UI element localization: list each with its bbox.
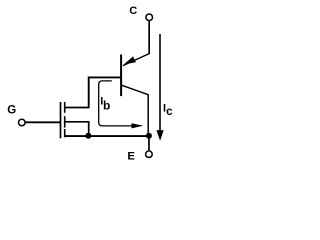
current arrowhead Ic xyxy=(156,130,163,141)
wire C terminal to emitter diagonal xyxy=(148,21,150,54)
svg-text:c: c xyxy=(166,106,173,118)
terminal E circle xyxy=(146,151,153,158)
MOSFET M1 body stub xyxy=(65,122,89,136)
MOSFET M1 channel segment bottom xyxy=(64,129,66,137)
MOSFET M1 channel segment top xyxy=(64,102,66,113)
wire gate xyxy=(26,121,60,123)
terminal G circle xyxy=(19,119,26,126)
svg-text:C: C xyxy=(129,5,137,17)
svg-text:b: b xyxy=(103,98,110,112)
transistor Q1 emitter arrowhead (PNP, points into base) xyxy=(124,56,136,64)
wire base (MOSFET drain to Q1 base) xyxy=(89,77,121,107)
svg-text:E: E xyxy=(127,150,135,162)
transistor Q1 collector diagonal xyxy=(122,85,149,95)
wire emitter bottom rail xyxy=(64,135,149,137)
MOSFET M1 gate bar xyxy=(60,102,62,138)
current arrow Ic line xyxy=(159,34,161,132)
current arrowhead Ib xyxy=(132,123,144,128)
MOSFET M1 channel segment middle xyxy=(64,116,66,127)
wire E terminal stub xyxy=(148,136,150,150)
transistor Q1 emitter diagonal xyxy=(123,54,149,66)
terminal C circle xyxy=(146,14,153,21)
transistor Q1 PNP base bar xyxy=(120,55,122,97)
wire collector vertical down to emitter node xyxy=(147,94,149,136)
MOSFET M1 drain stub xyxy=(65,107,90,109)
svg-text:G: G xyxy=(7,104,16,116)
node source junction dot xyxy=(85,133,91,139)
node emitter junction dot xyxy=(146,133,152,139)
current path Ib bracket with arrow xyxy=(99,81,133,126)
